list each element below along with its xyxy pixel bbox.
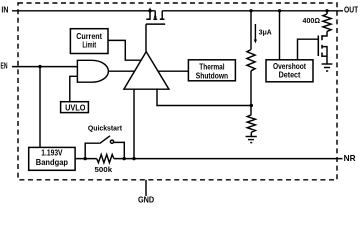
svg-text:Shutdown: Shutdown (196, 70, 228, 80)
svg-text:Quickstart: Quickstart (88, 124, 122, 133)
svg-text:500k: 500k (95, 165, 113, 174)
svg-text:IN: IN (1, 6, 8, 15)
svg-text:EN: EN (1, 62, 8, 71)
svg-text:UVLO: UVLO (65, 102, 86, 112)
svg-text:400Ω: 400Ω (303, 16, 321, 25)
svg-text:NR: NR (344, 154, 356, 163)
svg-text:3μA: 3μA (259, 27, 272, 36)
svg-text:GND: GND (138, 196, 154, 205)
svg-text:Detect: Detect (279, 70, 301, 80)
svg-text:OUT: OUT (344, 6, 358, 15)
svg-text:Bandgap: Bandgap (36, 157, 68, 167)
svg-text:Limit: Limit (82, 39, 96, 49)
